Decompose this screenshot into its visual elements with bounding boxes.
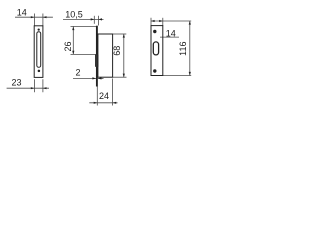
middle view: ext line 26 top — [71, 25, 97, 27]
arrow 26 top pointing up — [72, 27, 74, 31]
arrow 14-right outside pointing left — [43, 16, 47, 18]
arrow 2 pointing right at bar — [92, 77, 96, 79]
right view: slot obround — [153, 42, 158, 55]
middle view: ext line 26 bottom — [71, 53, 97, 55]
left view: dim line 14 — [15, 16, 53, 18]
middle view: lock case box — [98, 34, 113, 77]
middle view: ext line 68 top — [113, 33, 126, 35]
middle view: dim 26 vertical line — [72, 27, 74, 55]
left view: extension tick right — [42, 14, 44, 26]
svg-text:23: 23 — [12, 77, 22, 87]
left view: extension tick left — [33, 14, 35, 26]
middle view: dim line 2 right part — [98, 77, 104, 79]
right view: tick right — [162, 18, 164, 26]
arrow 23-left outside pointing right — [31, 87, 35, 89]
middle view: tick 24 left — [96, 87, 98, 106]
middle view: bolt thickening — [95, 55, 98, 67]
right view: top screw hole — [153, 30, 156, 33]
arrow 14-left outside pointing right — [31, 16, 35, 18]
middle view: tick 24 right — [112, 79, 114, 106]
svg-text:10,5: 10,5 — [65, 10, 83, 20]
middle view: tick 10,5 right — [97, 16, 99, 26]
svg-text:116: 116 — [178, 42, 188, 56]
left view: bottom tick left — [33, 79, 35, 92]
svg-text:68: 68 — [112, 46, 122, 56]
right view: tick left — [150, 18, 152, 26]
arrow 24-right outside pointing left — [113, 102, 117, 104]
middle view: dim 68 vertical line — [123, 34, 125, 77]
left view: top screw hole — [38, 29, 40, 31]
arrow 24-left outside pointing right — [94, 102, 98, 104]
right view: dim line 14 and top ext of 116 — [151, 20, 191, 22]
arrow 116 bottom pointing down — [189, 72, 191, 76]
middle view: dim line 10,5 — [63, 18, 104, 20]
arrow 68 bottom pointing down — [123, 74, 125, 78]
left view: bottom tick right — [42, 79, 44, 92]
arrow right-14-left inside pointing left — [151, 20, 155, 22]
arrow 10,5-right outside pointing left — [98, 18, 102, 20]
left view: slot obround — [37, 32, 41, 68]
middle view: dim line 24 — [89, 102, 117, 104]
svg-text:14: 14 — [17, 8, 27, 18]
left view: faceplate rectangle — [34, 26, 43, 78]
left view: bottom screw hole — [38, 70, 41, 73]
right view: dim 116 vertical line — [189, 21, 191, 76]
arrow 2 right part pointing left at bar — [98, 77, 102, 79]
middle view: ext line 68 bottom — [113, 76, 127, 78]
left view: dim line 23 — [7, 87, 49, 89]
arrow right-14-right inside pointing right — [159, 20, 163, 22]
svg-text:14: 14 — [166, 28, 176, 38]
right view: bottom screw hole — [153, 69, 156, 72]
svg-text:2: 2 — [76, 68, 81, 78]
svg-text:24: 24 — [99, 91, 109, 101]
svg-text:26: 26 — [63, 41, 73, 51]
arrow 68 top pointing up — [123, 34, 125, 38]
arrow 10,5-left outside pointing right — [91, 18, 95, 20]
arrow 23-right outside pointing left — [43, 87, 47, 89]
middle view: faceplate bar side — [96, 26, 98, 87]
right view: strike plate rectangle — [151, 26, 163, 76]
right view: landing line under 14 text — [160, 36, 179, 38]
right view: bottom ext line of 116 — [163, 75, 191, 77]
middle view: tick 10,5 left — [93, 16, 95, 24]
arrow 26 bottom pointing down — [72, 51, 74, 55]
arrow 116 top pointing up — [189, 21, 191, 25]
middle view: dim line 2 left part — [73, 77, 96, 79]
